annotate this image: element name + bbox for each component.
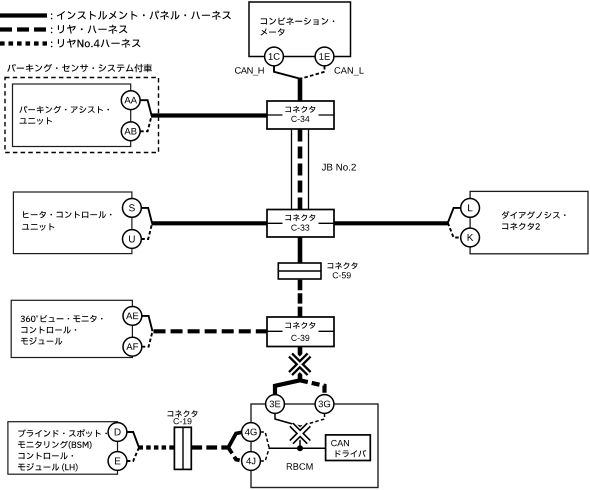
- box: blind spot monitoring (BSM) control module (LH): [8, 422, 118, 475]
- connector C-34: [267, 101, 334, 129]
- pin AA: [121, 91, 140, 110]
- wire: heater unit to connector C-33 (thick solid): [152, 221, 268, 225]
- wire: C-19 to RBCM junction (rear harness, thick dashed): [191, 445, 229, 449]
- wire: junction to pin L (thin solid): [448, 208, 461, 223]
- wire: pin 1C to junction (CAN_H, thin solid): [274, 66, 299, 78]
- wire: pin 1E to junction (CAN_L, thin dashed): [302, 66, 325, 78]
- wire: pin D to junction (thin solid): [127, 432, 139, 448]
- junction dot on CAN bus: [297, 445, 303, 451]
- wire: connector C-33 to diagnosis connector (thick solid): [334, 221, 448, 225]
- twisted pair symbol X1: [291, 355, 310, 374]
- wire: rear harness through JB No.2 (thick dashed vertical): [298, 130, 303, 210]
- dashed group box: parking sensor system: [5, 78, 159, 153]
- legend line: rear No.4 harness (dotted): [0, 39, 141, 48]
- pin L: [461, 199, 480, 218]
- pin D: [108, 423, 127, 442]
- wire: junction to pin 4J (thick dashed): [228, 448, 241, 461]
- pin AE: [123, 307, 142, 326]
- wire: pin AF to junction (thin dashed): [142, 331, 153, 346]
- wire: branch to pin 3G (thick dashed): [300, 380, 325, 395]
- wire: junction to pin K (thin dashed): [448, 223, 461, 238]
- legend line: rear harness (dashed): [0, 25, 127, 34]
- pin 1C: [265, 47, 284, 66]
- pin U: [122, 230, 141, 249]
- wire: BSM junction to connector C-19 (rear No.4 harness, thick dotted): [139, 445, 175, 449]
- twisted pair symbol X2: [291, 425, 308, 442]
- wire: 4G to internal bus (thin dashed): [260, 432, 269, 448]
- box: CAN driver: [326, 435, 371, 461]
- pin K: [461, 228, 480, 247]
- box: parking assist unit: [13, 84, 131, 147]
- legend line: instrument panel harness (solid): [0, 11, 231, 20]
- connector C-19 (in-line): [168, 410, 198, 469]
- wire: pin AB to junction (CAN_L, thin dashed): [140, 116, 151, 132]
- wire: meter junction down to connector C-34 (thick solid): [298, 78, 303, 102]
- box: heater control unit: [13, 192, 131, 254]
- box: RBCM: [251, 404, 378, 488]
- label: parking sensor system equipped vehicles: [7, 64, 152, 73]
- wire: twist point down to bus junction (thin solid): [299, 426, 301, 449]
- junction block JB No.2 channel lines: [292, 129, 309, 210]
- wire: 360 view module to connector C-39 (rear harness, thick dashed): [154, 329, 269, 333]
- box: 360 view monitor control module: [11, 300, 132, 357]
- connector C-39: [267, 317, 334, 347]
- wire: pin AE to junction (thin solid): [142, 316, 153, 331]
- pin 4J: [242, 452, 261, 471]
- wire: junction to pin 4G (thick solid): [228, 432, 241, 447]
- pin 1E: [315, 47, 334, 66]
- wire: pin U to junction (thin dashed): [141, 223, 152, 239]
- label: JB No.2: [322, 164, 356, 171]
- label: CAN_L: [335, 67, 364, 75]
- box: diagnosis connector 2: [470, 191, 588, 253]
- box: combination meter: [249, 2, 351, 57]
- wire: C-59 down to connector C-39 (thick dashed): [298, 280, 303, 317]
- connector C-59 (in-line): [278, 262, 357, 279]
- pin AF: [123, 337, 142, 356]
- label: CAN_H: [235, 67, 264, 75]
- pin AB: [121, 122, 140, 141]
- wire: 3G to twist point (thin dashed): [301, 414, 325, 427]
- wire: pin S to junction (thin solid): [141, 208, 152, 223]
- wire: C-39 down through twist point (thick solid): [298, 347, 303, 381]
- wire: 4J to internal bus (thin dashed): [260, 448, 269, 461]
- pin E: [108, 452, 127, 471]
- pin S: [122, 199, 141, 218]
- wire: pin E to junction (thin dashed): [127, 448, 139, 462]
- wire: 3E to twist point (thin solid): [275, 414, 300, 427]
- wire: internal CAN bus to CAN driver (thin solid): [269, 447, 326, 449]
- wire: parking assist to connector C-34 (instrument panel harness, thick solid): [151, 113, 267, 117]
- pin 3G: [315, 395, 334, 414]
- pin 3E: [266, 395, 285, 414]
- wire: branch to pin 3E (thick solid): [275, 380, 300, 395]
- label: RBCM: [287, 463, 313, 470]
- wire: C-33 down to connector C-59 (thick solid): [298, 237, 303, 263]
- wire: pin AA to junction (CAN_H, thin solid): [140, 100, 151, 115]
- pin 4G: [242, 423, 261, 442]
- connector C-33: [267, 210, 334, 238]
